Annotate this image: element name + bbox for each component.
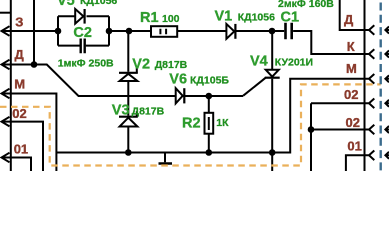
svg-text:02: 02 (344, 87, 358, 102)
svg-text:V6: V6 (169, 71, 187, 87)
svg-text:Д817В: Д817В (155, 59, 188, 71)
svg-text:К: К (347, 39, 355, 54)
svg-text:C1: C1 (281, 10, 300, 26)
svg-text:З: З (15, 15, 23, 30)
svg-text:КУ201И: КУ201И (275, 57, 313, 69)
svg-text:КД105Б: КД105Б (190, 74, 229, 86)
svg-text:V5: V5 (57, 0, 75, 9)
svg-text:V2: V2 (132, 57, 150, 73)
svg-text:М: М (14, 76, 25, 91)
svg-text:R1: R1 (140, 10, 159, 26)
svg-text:2мкФ 160В: 2мкФ 160В (278, 0, 334, 10)
svg-text:М: М (346, 61, 357, 76)
svg-text:КД1056: КД1056 (80, 0, 117, 7)
svg-text:V1: V1 (215, 8, 233, 24)
svg-text:1мкФ 250В: 1мкФ 250В (58, 57, 114, 69)
svg-text:02: 02 (346, 115, 360, 130)
svg-text:КД1056: КД1056 (238, 11, 275, 23)
svg-text:Д: Д (344, 12, 354, 27)
svg-text:01: 01 (14, 141, 28, 156)
svg-text:1К: 1К (216, 117, 229, 129)
svg-text:C2: C2 (73, 25, 92, 41)
svg-text:02: 02 (12, 106, 26, 121)
svg-text:Д817В: Д817В (132, 106, 165, 118)
svg-text:V3: V3 (112, 103, 130, 119)
svg-text:100: 100 (162, 13, 180, 25)
svg-text:V4: V4 (250, 54, 268, 70)
svg-text:Д: Д (15, 47, 25, 62)
svg-text:01: 01 (347, 139, 361, 154)
svg-text:R2: R2 (182, 116, 201, 132)
